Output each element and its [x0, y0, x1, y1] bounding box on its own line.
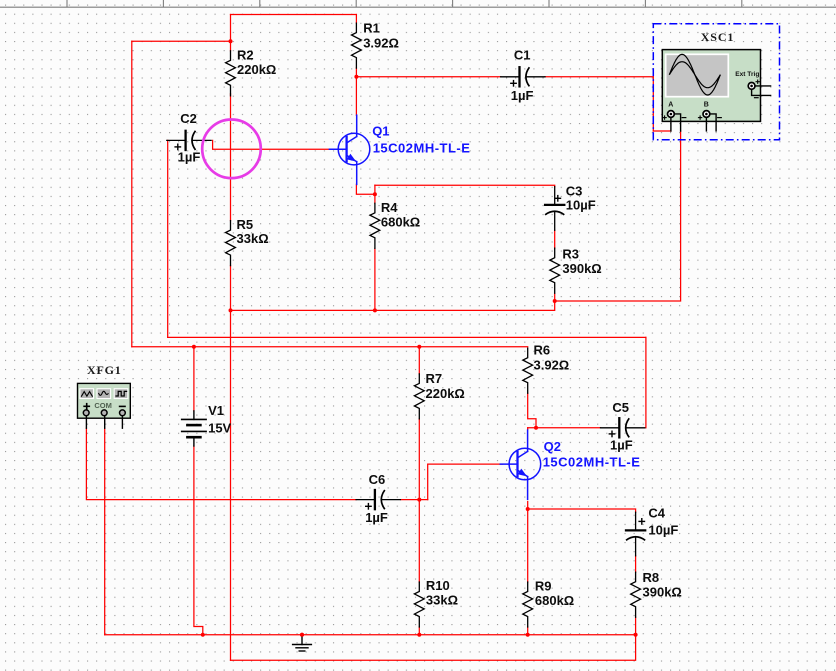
node R4 top junction — [373, 192, 377, 196]
wire left vertical rail — [131, 41, 133, 346]
wire R1 top stub — [355, 15, 357, 24]
wire C5 right vertical — [645, 337, 647, 427]
svg-text:R4: R4 — [381, 200, 398, 215]
wire ground rail — [105, 634, 636, 636]
node R7 top junction — [417, 345, 421, 349]
resistor R10 — [414, 582, 424, 627]
wire emitter node to C3 — [375, 185, 555, 187]
svg-text:220kΩ: 220kΩ — [426, 386, 465, 401]
wire to scope A+ — [653, 130, 671, 132]
wire channel B stubs — [705, 118, 707, 131]
scope trace 2 — [669, 62, 720, 88]
resistor R6 — [523, 348, 533, 393]
wire C3 to R3 — [554, 230, 556, 248]
node R2-left junction — [229, 39, 233, 43]
wire XFG1 stubs — [85, 416, 87, 429]
svg-text:10µF: 10µF — [566, 198, 596, 213]
wire XFG1 COM to ground rail — [104, 428, 106, 635]
battery V1 — [193, 411, 195, 420]
wire Q2 collector stub — [527, 428, 529, 430]
svg-text:15C02MH-TL-E: 15C02MH-TL-E — [373, 140, 471, 155]
svg-text:390kΩ: 390kΩ — [562, 261, 601, 276]
node V1 ground junction — [201, 633, 205, 637]
svg-text:680kΩ: 680kΩ — [381, 215, 420, 230]
node R9 bottom junction — [526, 633, 530, 637]
wire R2 top vertical — [230, 15, 232, 51]
svg-text:Q2: Q2 — [544, 439, 561, 454]
resistor R5 — [226, 221, 236, 266]
resistor R9 — [523, 582, 533, 627]
node mid-rail junction — [229, 308, 233, 312]
node R6-collector junction — [534, 426, 538, 430]
wire node to Q2 base — [428, 464, 503, 500]
svg-text:XFG1: XFG1 — [87, 363, 122, 377]
transistor Q1 — [338, 133, 370, 165]
wire R1 bottom to collector node — [355, 68, 357, 115]
svg-text:680kΩ: 680kΩ — [535, 593, 574, 608]
wire R9 bottom — [527, 627, 529, 635]
svg-text:R3: R3 — [562, 247, 579, 262]
ground — [301, 636, 303, 645]
svg-text:R9: R9 — [535, 579, 552, 594]
node R4 bottom junction — [373, 308, 377, 312]
svg-text:C1: C1 — [514, 48, 531, 63]
svg-text:C4: C4 — [648, 506, 665, 521]
node C6-R7-R10 junction — [417, 498, 421, 502]
wire V1 bottom to ground rail — [194, 446, 203, 635]
resistor R8 — [631, 572, 641, 617]
svg-text:3.92Ω: 3.92Ω — [363, 35, 399, 50]
svg-text:3.92Ω: 3.92Ω — [534, 358, 570, 373]
node R10 bottom junction — [417, 633, 421, 637]
wire C4 to R8 — [635, 556, 637, 572]
node R8 bottom junction — [634, 633, 638, 637]
wire R6 bottom jog — [528, 393, 536, 428]
svg-text:1µF: 1µF — [610, 438, 633, 453]
svg-text:R8: R8 — [643, 570, 660, 585]
capacitor C2 — [167, 139, 185, 141]
svg-text:15V: 15V — [208, 420, 231, 435]
svg-text:33kΩ: 33kΩ — [426, 593, 458, 608]
svg-text:Ext Trig: Ext Trig — [735, 71, 759, 78]
svg-text:220kΩ: 220kΩ — [237, 62, 276, 77]
wire scope left vertical — [652, 77, 654, 131]
wire C2 to Q1 base — [213, 140, 330, 149]
svg-text:R6: R6 — [534, 343, 551, 358]
wire R5 bottom long vertical — [230, 266, 232, 661]
svg-text:R10: R10 — [426, 578, 450, 593]
sheet border top line — [0, 6, 836, 8]
wire C2-C5 horizontal — [168, 336, 646, 338]
wire R8 bottom — [635, 617, 637, 635]
svg-text:C3: C3 — [566, 183, 583, 198]
wire R7 bottom to R10 top — [418, 419, 420, 582]
wire Ext Trig stubs — [755, 85, 770, 87]
wire V+ distribution rail — [132, 346, 528, 348]
wire bottom return loop — [231, 635, 636, 661]
wire R3 node to mid rail — [231, 301, 555, 310]
resistor R4 — [370, 203, 380, 248]
wire collector node to C5 — [528, 427, 601, 429]
node Q2 emitter junction — [526, 507, 530, 511]
node R3 bottom junction — [553, 299, 557, 303]
svg-text:V1: V1 — [208, 403, 224, 418]
capacitor C6 — [356, 499, 374, 501]
wire R3 bottom — [554, 294, 556, 301]
svg-text:C5: C5 — [612, 400, 629, 415]
svg-text:XSC1: XSC1 — [701, 30, 735, 44]
wire R2 bottom to R5 top — [230, 94, 232, 221]
svg-text:R5: R5 — [237, 217, 254, 232]
wire XFG1 plus output — [86, 428, 356, 499]
scope trace 1 — [669, 54, 720, 95]
svg-text:390kΩ: 390kΩ — [643, 585, 682, 600]
capacitor C3 — [554, 187, 556, 204]
wire R4 node up — [374, 185, 376, 203]
svg-text:Q1: Q1 — [372, 124, 389, 139]
svg-text:C2: C2 — [180, 111, 197, 126]
svg-text:R7: R7 — [426, 371, 443, 386]
svg-text:R2: R2 — [237, 48, 254, 63]
svg-text:1µF: 1µF — [365, 510, 388, 525]
svg-text:C6: C6 — [369, 472, 386, 487]
transistor Q2 — [509, 448, 541, 480]
svg-text:B: B — [704, 102, 709, 109]
wire junction to left rail — [132, 40, 231, 42]
capacitor C4 — [635, 512, 637, 529]
wire emitter node to C4 — [528, 509, 636, 512]
resistor R1 — [352, 23, 362, 68]
wire Q1 emitter to R4 — [356, 184, 375, 194]
resistor R3 — [550, 248, 560, 293]
wire R4 bottom — [374, 248, 376, 310]
svg-text:A: A — [668, 102, 673, 109]
node Q1 collector junction — [354, 75, 358, 79]
resistor R2 — [226, 51, 236, 96]
wire collector node to C1 — [356, 76, 500, 78]
node ground symbol junction — [300, 633, 304, 637]
svg-text:10µF: 10µF — [648, 522, 678, 537]
wire C2 input from C5: vertical — [167, 140, 169, 337]
wire channel A stubs — [670, 118, 672, 131]
wire scope A- down — [555, 131, 681, 301]
wire R10 bottom — [418, 627, 420, 635]
wire V1 top — [193, 347, 195, 411]
svg-text:1µF: 1µF — [511, 88, 534, 103]
node V1 top junction — [192, 345, 196, 349]
resistor R7 — [414, 374, 424, 419]
svg-text:33kΩ: 33kΩ — [237, 231, 269, 246]
svg-text:15C02MH-TL-E: 15C02MH-TL-E — [543, 455, 641, 470]
wire C1 to scope — [545, 76, 653, 78]
wire C6 right to node — [401, 499, 428, 501]
capacitor C1 — [501, 76, 519, 78]
wire R7 top — [418, 347, 420, 374]
svg-text:COM: COM — [94, 401, 112, 410]
svg-text:1µF: 1µF — [178, 150, 201, 165]
wire V+ top rail R2-R1 — [231, 14, 357, 16]
capacitor C5 — [601, 427, 619, 429]
wire Q2 emitter down to R9 — [527, 502, 529, 583]
svg-text:R1: R1 — [363, 20, 380, 35]
annotation circle — [202, 120, 261, 179]
